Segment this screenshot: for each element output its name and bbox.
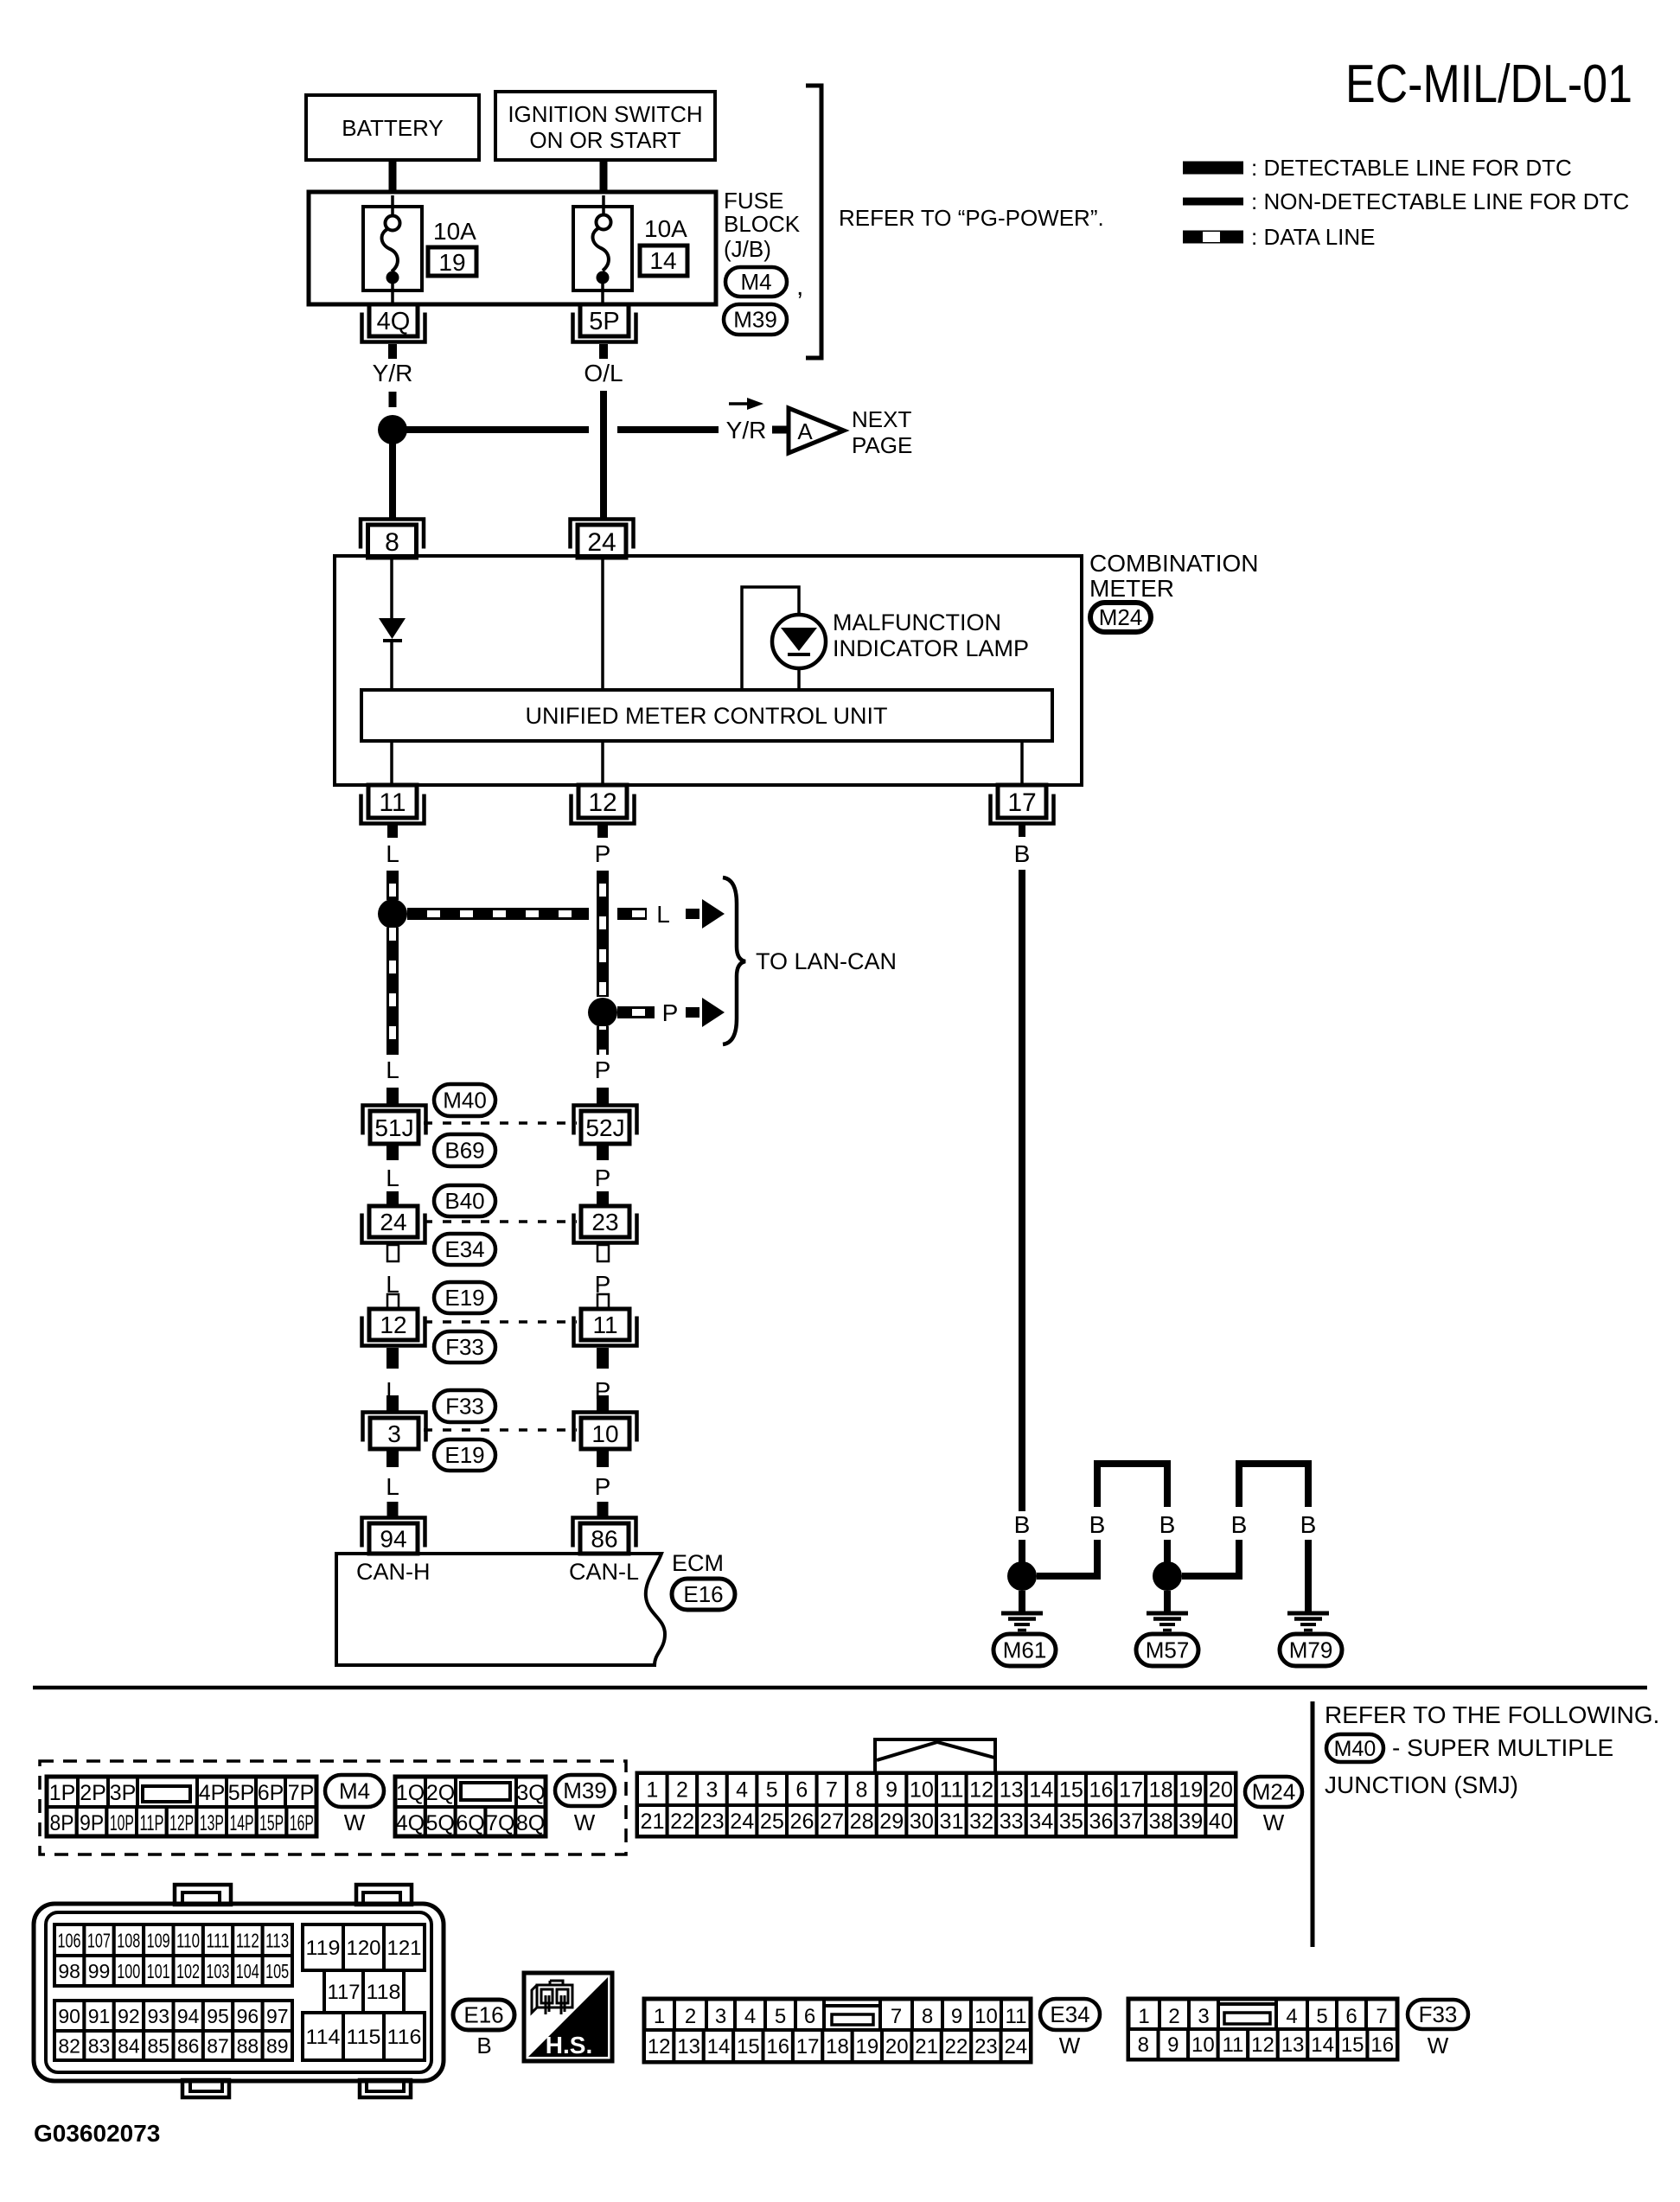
data line L down to junction — [386, 871, 399, 900]
svg-text:M39: M39 — [733, 307, 777, 333]
connector ref M24 view — [1245, 1777, 1302, 1807]
svg-text:24: 24 — [1004, 2035, 1027, 2058]
connector view E16 shell — [34, 1904, 444, 2081]
svg-text:111: 111 — [206, 1929, 229, 1951]
wire M79 down — [1305, 1540, 1312, 1613]
svg-text:86: 86 — [591, 1526, 617, 1553]
connector ref M39 — [724, 304, 787, 335]
svg-text:A: A — [797, 418, 813, 444]
svg-text:11P: 11P — [140, 1811, 164, 1835]
svg-text:17: 17 — [1007, 788, 1036, 817]
svg-text:37: 37 — [1119, 1809, 1143, 1834]
svg-text:6: 6 — [795, 1778, 808, 1803]
svg-text:20: 20 — [1209, 1778, 1233, 1803]
svg-text:O/L: O/L — [584, 360, 623, 386]
svg-text:10P: 10P — [110, 1811, 134, 1835]
connector ref E19 — [434, 1282, 495, 1313]
ground symbol M61 — [1001, 1612, 1043, 1616]
svg-text:116: 116 — [387, 2026, 422, 2049]
svg-text:21: 21 — [915, 2035, 938, 2058]
svg-text:M57: M57 — [1146, 1637, 1190, 1663]
svg-text:89: 89 — [266, 2034, 289, 2057]
svg-text:121: 121 — [387, 1937, 422, 1960]
connector ref M39 view — [555, 1775, 615, 1806]
connector ref M4 view — [325, 1775, 384, 1807]
svg-text:11: 11 — [592, 1312, 617, 1338]
bracket refer to PG-POWER — [806, 86, 821, 358]
svg-text:90: 90 — [58, 2005, 80, 2027]
wire B from conn17 — [1019, 870, 1025, 1511]
connector ref E19 oval 2 — [434, 1439, 495, 1471]
svg-text:103: 103 — [206, 1960, 229, 1982]
svg-text:11: 11 — [1222, 2033, 1243, 2057]
wire stub below 3 — [386, 1449, 399, 1467]
svg-text:3: 3 — [715, 2005, 726, 2028]
wire bridge2 left leg — [1182, 1540, 1239, 1576]
svg-text:104: 104 — [236, 1960, 259, 1982]
svg-text:94: 94 — [380, 1526, 406, 1553]
svg-text:19: 19 — [1179, 1778, 1203, 1803]
svg-text:(J/B): (J/B) — [724, 236, 771, 262]
wire Y/R horizontal to next page — [406, 426, 589, 433]
svg-text:24: 24 — [587, 528, 616, 557]
svg-text:3: 3 — [1198, 2005, 1209, 2028]
svg-text:P: P — [595, 840, 611, 867]
combination meter box — [335, 556, 1082, 785]
svg-text:F33: F33 — [445, 1334, 484, 1360]
svg-text:101: 101 — [147, 1960, 170, 1982]
wire stub below 52J — [597, 1144, 609, 1160]
connector ref M4 — [725, 267, 787, 297]
wire control unit to conn11 — [390, 741, 393, 785]
wire loop to MIL lamp — [742, 587, 799, 690]
svg-text:25: 25 — [760, 1809, 784, 1834]
svg-text:INDICATOR LAMP: INDICATOR LAMP — [833, 635, 1029, 661]
ground bridge 1 — [1097, 1464, 1167, 1507]
svg-text:40: 40 — [1209, 1809, 1233, 1834]
connector 12 pair — [362, 1317, 425, 1346]
wire stub below 24 hollow — [387, 1245, 399, 1261]
legend data line symbol — [1183, 231, 1243, 244]
svg-text:F33: F33 — [445, 1394, 484, 1420]
diode — [379, 618, 406, 639]
wire stub above 12 hollow — [387, 1294, 399, 1310]
svg-text:10: 10 — [910, 1778, 934, 1803]
wire stub below 23 hollow — [597, 1245, 609, 1261]
fuse F14 element — [602, 195, 605, 215]
svg-text:18: 18 — [1149, 1778, 1173, 1803]
wire dot M57 to ground — [1164, 1591, 1171, 1613]
svg-text:B40: B40 — [444, 1188, 484, 1214]
svg-text:5Q: 5Q — [426, 1811, 455, 1835]
svg-text:13P: 13P — [200, 1811, 224, 1835]
svg-text:Y/R: Y/R — [373, 360, 413, 386]
svg-text:1Q: 1Q — [396, 1781, 425, 1805]
svg-text:5: 5 — [766, 1778, 778, 1803]
svg-text:119: 119 — [306, 1937, 341, 1960]
data line L horizontal after crossing — [617, 908, 647, 920]
connector ref M40 — [434, 1084, 495, 1116]
svg-text:4: 4 — [744, 2005, 756, 2028]
svg-text:14: 14 — [707, 2035, 731, 2058]
svg-text:30: 30 — [910, 1809, 934, 1834]
svg-text:39: 39 — [1179, 1809, 1203, 1834]
connector 8 — [361, 520, 424, 549]
wire 4Q stub — [388, 344, 397, 359]
connector 24 top — [571, 520, 634, 549]
svg-text:3P: 3P — [110, 1781, 137, 1805]
connector 10 — [574, 1413, 637, 1442]
wire stub above 86 — [597, 1502, 609, 1516]
wire stub above 3 — [386, 1395, 399, 1411]
svg-text:12: 12 — [380, 1312, 406, 1338]
svg-text:,: , — [796, 272, 803, 301]
junction dot L — [378, 899, 407, 929]
legend detectable line symbol — [1183, 162, 1243, 175]
svg-text:14P: 14P — [230, 1811, 254, 1835]
separator line — [33, 1686, 1647, 1690]
svg-text:8: 8 — [922, 2005, 933, 2028]
svg-text:120: 120 — [347, 1937, 381, 1960]
dashed link 3-10 — [424, 1428, 577, 1432]
connector view M24 tab — [875, 1739, 995, 1773]
svg-text:COMBINATION: COMBINATION — [1089, 550, 1258, 577]
svg-text:M24: M24 — [1252, 1779, 1296, 1805]
svg-text:1: 1 — [1138, 2005, 1149, 2028]
svg-text:13: 13 — [677, 2035, 700, 2058]
svg-text:7: 7 — [891, 2005, 902, 2028]
wire stub above 10 — [597, 1395, 609, 1411]
wire stub above 94 — [387, 1502, 399, 1516]
svg-text:27: 27 — [820, 1809, 844, 1834]
svg-text:102: 102 — [176, 1960, 200, 1982]
svg-text:L: L — [386, 1056, 399, 1083]
ground symbol M79 — [1287, 1612, 1329, 1616]
svg-text:105: 105 — [265, 1960, 289, 1982]
svg-text:15: 15 — [737, 2035, 760, 2058]
svg-text:9: 9 — [885, 1778, 897, 1803]
svg-text:L: L — [386, 1473, 399, 1500]
svg-text:97: 97 — [266, 2005, 289, 2027]
junction dot M61 — [1007, 1561, 1037, 1591]
svg-text:M39: M39 — [563, 1778, 607, 1803]
svg-text:M24: M24 — [1099, 604, 1143, 630]
svg-text:86: 86 — [177, 2034, 200, 2057]
svg-text:1: 1 — [646, 1778, 658, 1803]
svg-text:12: 12 — [648, 2035, 671, 2058]
wire stub above 52J — [597, 1088, 609, 1104]
svg-text:31: 31 — [940, 1809, 964, 1834]
svg-text:22: 22 — [945, 2035, 968, 2058]
connector 86 — [573, 1518, 636, 1548]
svg-text:FUSE: FUSE — [724, 188, 783, 214]
svg-text:B: B — [1014, 1511, 1031, 1538]
divider vertical line — [1311, 1701, 1315, 1947]
svg-text:3Q: 3Q — [516, 1781, 545, 1805]
svg-text:29: 29 — [879, 1809, 904, 1834]
data line P below junction — [597, 1026, 609, 1055]
ground ref M79 — [1280, 1634, 1342, 1666]
svg-text:20: 20 — [885, 2035, 909, 2058]
svg-text:4P: 4P — [199, 1781, 226, 1805]
svg-text:W: W — [1428, 2033, 1449, 2058]
svg-text:15: 15 — [1341, 2033, 1364, 2057]
arrow above Y/R — [729, 402, 749, 405]
battery box — [306, 95, 479, 160]
wire stub P — [597, 823, 608, 838]
svg-text:5: 5 — [1316, 2005, 1327, 2028]
connector 3 — [363, 1413, 426, 1442]
svg-text:Y/R: Y/R — [726, 417, 767, 444]
data line L horizontal — [407, 908, 589, 920]
svg-text:8: 8 — [856, 1778, 868, 1803]
svg-text:6P: 6P — [258, 1781, 284, 1805]
connector view E34 grid — [644, 1999, 1031, 2062]
svg-text:106: 106 — [58, 1929, 81, 1951]
HS symbol connector icon — [532, 1981, 572, 2014]
junction dot Y/R — [378, 415, 407, 444]
malfunction indicator lamp — [772, 615, 826, 668]
svg-text:33: 33 — [1000, 1809, 1024, 1834]
svg-text:110: 110 — [176, 1929, 200, 1951]
wire Y/R down to meter — [389, 443, 396, 520]
svg-text:P: P — [595, 1473, 611, 1500]
E16 shell bottom tab 1 — [182, 2080, 229, 2097]
svg-text:CAN-L: CAN-L — [569, 1559, 639, 1585]
connector ref E16 — [672, 1579, 735, 1610]
svg-text:52J: 52J — [585, 1114, 624, 1141]
HS symbol box — [524, 1973, 612, 2061]
svg-text:13: 13 — [1281, 2033, 1305, 2057]
arrow L to LAN-CAN — [686, 909, 699, 919]
svg-text:36: 36 — [1089, 1809, 1114, 1834]
svg-text:34: 34 — [1029, 1809, 1053, 1834]
svg-text:E34: E34 — [444, 1236, 484, 1262]
svg-text:L: L — [386, 840, 399, 867]
brace TO LAN-CAN — [723, 878, 745, 1044]
svg-text:24: 24 — [730, 1809, 754, 1834]
dashed link 12-11 — [424, 1320, 577, 1324]
svg-text:91: 91 — [88, 2005, 111, 2027]
wire stub above 24 — [386, 1191, 399, 1207]
svg-text:P: P — [595, 1056, 611, 1083]
svg-text:G03602073: G03602073 — [34, 2120, 160, 2147]
connector view E16 right pin grid — [303, 1924, 343, 1970]
connector view M39 grid — [395, 1777, 546, 1836]
fuse block J/B box — [309, 192, 716, 304]
junction dot M57 — [1153, 1561, 1182, 1591]
wire control unit to conn12 — [601, 741, 604, 785]
svg-text:M4: M4 — [339, 1778, 370, 1804]
svg-text:8: 8 — [1138, 2033, 1149, 2057]
wire bridge1 left leg — [1037, 1540, 1097, 1576]
connector 51J — [363, 1106, 426, 1135]
svg-text:107: 107 — [87, 1929, 111, 1951]
svg-text:4: 4 — [1286, 2005, 1297, 2028]
svg-text:16: 16 — [1089, 1778, 1114, 1803]
svg-text:2Q: 2Q — [426, 1781, 455, 1805]
svg-text:10A: 10A — [433, 218, 476, 245]
svg-text:8Q: 8Q — [516, 1811, 545, 1835]
svg-text:11: 11 — [379, 788, 406, 817]
svg-text:M4: M4 — [740, 269, 771, 295]
fuse number 19 box — [428, 247, 476, 276]
connector view F33 grid — [1128, 1999, 1397, 2059]
connector ref E34 oval — [434, 1234, 495, 1265]
svg-text:B: B — [1300, 1511, 1317, 1538]
connector view M4 grid — [47, 1777, 316, 1836]
svg-text:18: 18 — [826, 2035, 849, 2058]
connector ref B69 — [434, 1134, 495, 1166]
svg-text:9P: 9P — [80, 1811, 104, 1835]
connector ref F33 oval — [434, 1331, 495, 1363]
svg-text:: DETECTABLE LINE FOR DTC: : DETECTABLE LINE FOR DTC — [1251, 155, 1572, 181]
svg-text:93: 93 — [148, 2005, 170, 2027]
wire stub L — [387, 823, 398, 838]
connector 5P — [573, 313, 636, 342]
svg-text:W: W — [574, 1809, 596, 1835]
svg-text:24: 24 — [380, 1209, 406, 1235]
svg-text:F33: F33 — [1419, 2001, 1458, 2027]
svg-text:P: P — [662, 999, 679, 1026]
wire O/L down — [600, 391, 607, 520]
svg-text:1: 1 — [654, 2005, 665, 2028]
svg-text:19: 19 — [438, 249, 465, 276]
svg-text:114: 114 — [306, 2026, 341, 2049]
svg-text:15: 15 — [1059, 1778, 1083, 1803]
svg-text:E34: E34 — [1050, 2001, 1089, 2027]
svg-text:5P: 5P — [589, 308, 619, 335]
data line P horizontal — [617, 1006, 655, 1018]
svg-text:12P: 12P — [169, 1811, 194, 1835]
connector 4Q — [362, 313, 425, 342]
svg-text:B: B — [1231, 1511, 1248, 1538]
connector 17 meter — [991, 795, 1054, 824]
svg-text:14: 14 — [649, 247, 676, 274]
svg-text:L: L — [386, 1165, 399, 1191]
data line L below junction — [386, 928, 399, 1055]
wire conn24 to control unit — [601, 558, 604, 690]
wire stub below 11 — [597, 1348, 609, 1369]
svg-text:112: 112 — [236, 1929, 259, 1951]
connector 11 meter — [361, 795, 425, 824]
svg-text:23: 23 — [974, 2035, 998, 2058]
svg-text:14: 14 — [1311, 2033, 1334, 2057]
svg-text:E19: E19 — [444, 1442, 484, 1468]
svg-text:: NON-DETECTABLE LINE FOR DTC: : NON-DETECTABLE LINE FOR DTC — [1251, 188, 1629, 214]
svg-text:28: 28 — [850, 1809, 874, 1834]
connector ref M40 note — [1326, 1734, 1383, 1762]
wire B stub to dot M61 — [1019, 1540, 1025, 1567]
svg-text:96: 96 — [237, 2005, 259, 2027]
wire conn8 to diode — [390, 558, 393, 618]
svg-text:E16: E16 — [683, 1581, 723, 1607]
svg-text:10: 10 — [1191, 2033, 1215, 2057]
connector ref M24 — [1090, 603, 1151, 632]
wire stub B — [1019, 823, 1025, 837]
wire 5P stub — [599, 344, 608, 359]
svg-text:7P: 7P — [288, 1781, 315, 1805]
svg-text:83: 83 — [88, 2034, 111, 2057]
unified meter control unit box — [361, 690, 1052, 741]
connector ref F33 view — [1408, 2000, 1468, 2029]
svg-text:CAN-H: CAN-H — [356, 1559, 431, 1585]
svg-text:2: 2 — [685, 2005, 696, 2028]
svg-text:84: 84 — [118, 2034, 140, 2057]
wire dot M61 to ground — [1019, 1591, 1025, 1613]
svg-text:4Q: 4Q — [377, 308, 411, 335]
svg-text:8P: 8P — [50, 1811, 74, 1835]
svg-text:6Q: 6Q — [456, 1811, 484, 1835]
wire lamp to control unit — [797, 668, 801, 690]
svg-text:B: B — [1089, 1511, 1106, 1538]
svg-text:L: L — [656, 901, 670, 928]
dashed link 51J-52J — [424, 1121, 577, 1125]
wire stub to A triangle — [772, 426, 790, 434]
connector ref B40 — [434, 1185, 495, 1216]
svg-text:9: 9 — [951, 2005, 962, 2028]
wire ignition switch to fuse block — [600, 160, 608, 194]
svg-text:M61: M61 — [1003, 1637, 1047, 1663]
svg-text:21: 21 — [641, 1809, 665, 1834]
svg-text:4: 4 — [736, 1778, 748, 1803]
svg-text:14: 14 — [1029, 1778, 1053, 1803]
svg-text:88: 88 — [237, 2034, 259, 2057]
svg-text:B69: B69 — [444, 1138, 484, 1164]
svg-text:5P: 5P — [228, 1781, 255, 1805]
svg-text:4Q: 4Q — [396, 1811, 425, 1835]
E16 shell top tab 1 — [175, 1885, 231, 1905]
svg-text:ON OR START: ON OR START — [529, 127, 680, 153]
svg-text:B: B — [476, 2033, 491, 2058]
svg-text:2: 2 — [1168, 2005, 1179, 2028]
svg-text:BATTERY: BATTERY — [342, 115, 444, 141]
fuse F19 housing — [363, 207, 422, 290]
svg-text:7: 7 — [826, 1778, 838, 1803]
wire bridge1 right leg to dot M57 — [1164, 1540, 1171, 1567]
svg-text:- SUPER MULTIPLE: - SUPER MULTIPLE — [1392, 1734, 1613, 1761]
wire Y/R dash — [389, 392, 397, 407]
E16 shell bottom tab 2 — [360, 2080, 411, 2097]
svg-text:NEXT: NEXT — [852, 406, 911, 432]
svg-text:P: P — [595, 1165, 611, 1191]
svg-text:12: 12 — [969, 1778, 993, 1803]
dashed link 24-23 — [424, 1220, 577, 1223]
svg-text:16: 16 — [766, 2035, 789, 2058]
svg-text:109: 109 — [147, 1929, 170, 1951]
svg-text:W: W — [1263, 1809, 1285, 1835]
svg-text:16: 16 — [1370, 2033, 1394, 2057]
svg-text:B: B — [1159, 1511, 1176, 1538]
connector ref E34 view — [1040, 1999, 1100, 2030]
junction dot P — [588, 998, 617, 1027]
svg-text:108: 108 — [117, 1929, 140, 1951]
svg-text:REFER TO “PG-POWER”.: REFER TO “PG-POWER”. — [839, 205, 1104, 231]
svg-text:17: 17 — [1119, 1778, 1143, 1803]
wire stub above 51J — [386, 1088, 399, 1104]
legend non-detectable line symbol — [1183, 198, 1243, 206]
svg-text:2: 2 — [676, 1778, 688, 1803]
svg-text:10A: 10A — [644, 215, 687, 242]
connector view M24 grid — [637, 1773, 1236, 1836]
ground symbol M57 — [1147, 1612, 1188, 1616]
wire stub above 23 — [597, 1191, 609, 1207]
connector 23 pair — [574, 1214, 637, 1243]
svg-text:38: 38 — [1149, 1809, 1173, 1834]
svg-text:8: 8 — [385, 528, 399, 557]
svg-text:IGNITION SWITCH: IGNITION SWITCH — [508, 101, 702, 127]
svg-text:15P: 15P — [259, 1811, 284, 1835]
